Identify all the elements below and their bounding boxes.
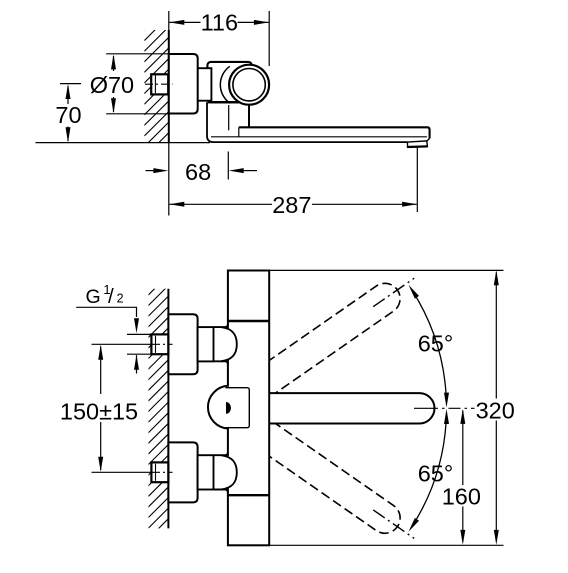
svg-text:/: / (108, 285, 114, 308)
svg-text:Ø70: Ø70 (90, 72, 134, 98)
svg-text:160: 160 (442, 483, 481, 509)
svg-text:68: 68 (185, 159, 211, 185)
svg-text:G: G (86, 286, 101, 308)
svg-text:2: 2 (117, 291, 124, 305)
svg-text:70: 70 (55, 102, 81, 128)
svg-text:150±15: 150±15 (60, 399, 138, 425)
svg-text:287: 287 (272, 192, 311, 218)
svg-text:65°: 65° (418, 330, 454, 356)
svg-text:116: 116 (201, 10, 238, 36)
svg-text:320: 320 (476, 397, 515, 423)
